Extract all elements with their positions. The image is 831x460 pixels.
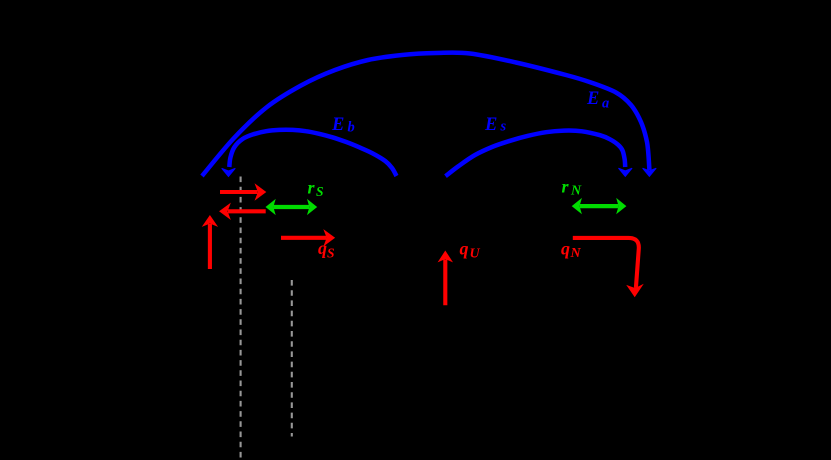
svg-text:E: E — [331, 115, 344, 135]
curve Es (right small blue arc) — [446, 131, 626, 177]
arrowhead of Ea (points down) — [643, 168, 657, 176]
red arrow up (left, x=210) — [208, 224, 212, 269]
red bent arrow qN (right then down) — [573, 238, 639, 288]
svg-text:b: b — [348, 120, 355, 136]
svg-text:a: a — [602, 96, 609, 112]
svg-text:q: q — [561, 239, 570, 259]
svg-text:r: r — [308, 178, 316, 198]
curve Eb (left small blue arc) — [229, 130, 396, 176]
red arrow right qS — [281, 236, 327, 240]
svg-text:s: s — [500, 119, 507, 135]
red arrow right (top left group) — [220, 190, 258, 194]
svg-text:E: E — [586, 89, 599, 109]
dashed guide line left (x=240.6) — [240, 177, 242, 458]
arrowhead of Es (points down) — [619, 168, 633, 176]
svg-text:E: E — [484, 115, 497, 135]
red arrow left (below it) — [228, 209, 266, 213]
svg-text:q: q — [460, 239, 469, 259]
svg-text:U: U — [470, 247, 481, 262]
dashed guide line right (x=291.8) — [291, 280, 293, 437]
green double arrow rN — [580, 204, 619, 208]
arrowhead of Eb (points down) — [222, 168, 236, 176]
svg-text:N: N — [570, 184, 582, 199]
curve Ea (big blue arc) — [202, 53, 649, 176]
svg-text:N: N — [570, 246, 582, 261]
svg-text:S: S — [327, 246, 335, 261]
red arrow up qU — [443, 260, 447, 306]
svg-text:S: S — [316, 184, 324, 199]
svg-text:q: q — [318, 238, 327, 258]
green double arrow rS — [274, 205, 310, 209]
svg-text:r: r — [562, 177, 570, 197]
